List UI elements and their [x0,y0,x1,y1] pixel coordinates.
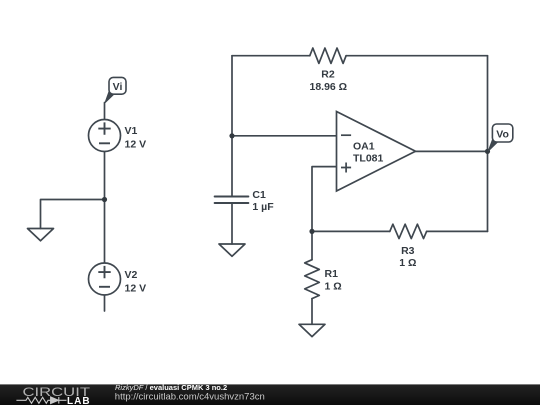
svg-text:TL081: TL081 [353,153,384,165]
resistor R2 [310,48,346,63]
wire C1 to ground [231,203,233,244]
svg-text:1 Ω: 1 Ω [399,257,416,269]
resistor R1 [305,260,320,299]
capacitor C1 [215,197,249,204]
wire R1 to ground [311,299,313,325]
footer title text [115,383,265,402]
svg-text:LAB: LAB [67,396,91,405]
svg-text:R1: R1 [325,268,339,280]
svg-text:12 V: 12 V [125,282,147,294]
svg-text:R3: R3 [401,245,415,257]
svg-text:V1: V1 [125,125,138,137]
svg-text:V2: V2 [125,269,138,281]
wire top feedback R2 left [232,55,310,57]
ground GND3 [299,324,325,336]
node junction V1-V2 [102,197,107,202]
node flag Vo [488,124,513,151]
wire right vertical [487,56,489,232]
label OA1 value [353,140,384,164]
ground GND2 [219,244,245,256]
node junction output Vo [485,149,490,154]
wire junction to left ground [41,200,105,229]
voltage source V1 [89,120,121,152]
svg-text:Vi: Vi [113,81,123,93]
svg-text:C1: C1 [252,189,266,201]
svg-text:1 µF: 1 µF [252,201,274,213]
wire left vertical input [231,56,233,197]
label V2 value [125,269,147,294]
svg-text:Vo: Vo [496,128,509,140]
logo resistor-diode glyph [16,397,66,404]
resistor R3 [390,224,427,238]
wire V2 bottom stub [104,295,106,311]
wire R1 top [311,231,313,259]
svg-text:1 Ω: 1 Ω [325,281,342,293]
op-amp output wire [416,150,488,152]
label R2 value [309,69,347,93]
node junction R1 top [309,229,314,234]
wire op-amp plus input [312,167,337,232]
label R1 value [325,268,342,293]
svg-text:R2: R2 [321,69,335,81]
wire Vi to V1 top [104,103,106,120]
svg-text:12 V: 12 V [125,139,147,151]
label C1 value [252,189,274,213]
svg-text:http://circuitlab.com/c4vushvz: http://circuitlab.com/c4vushvzn73cn [115,391,265,402]
ground GND1 [28,229,54,241]
svg-text:OA1: OA1 [353,140,375,152]
node junction inverting input [229,133,234,138]
wire V1 bottom to V2 top [104,152,106,264]
voltage source V2 [89,263,121,295]
svg-text:18.96 Ω: 18.96 Ω [309,81,347,93]
wire bottom R3 right [427,230,488,232]
wire top feedback R2 right [346,55,487,57]
wire bottom R3 left [312,230,390,232]
label V1 value [125,125,147,151]
wire to op-amp minus input [232,135,337,137]
label R3 value [399,245,416,269]
op-amp OA1 [337,112,416,192]
node flag Vi [105,77,126,102]
CircuitLab logo wordmark [16,385,90,405]
